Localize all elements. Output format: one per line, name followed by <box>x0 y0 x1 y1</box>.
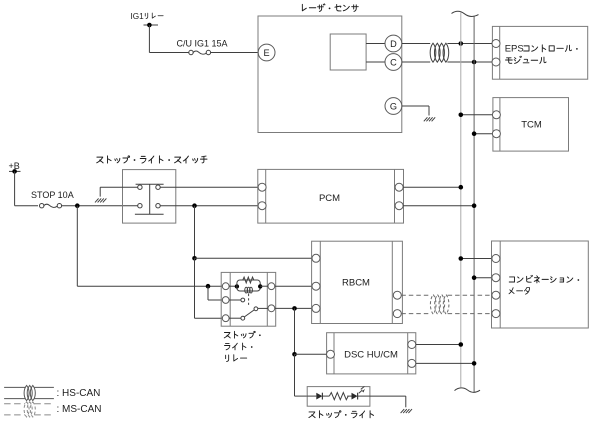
bus break symbol top <box>452 11 479 16</box>
legend MS-CAN text <box>57 404 102 415</box>
DSC HU/CM label <box>344 350 398 361</box>
ground (stop light) <box>401 409 412 413</box>
ground (stop light switch) <box>95 198 106 202</box>
wire pin G to ground <box>402 106 429 116</box>
PCM label <box>319 193 340 204</box>
module RBCM box <box>312 241 403 323</box>
pin 1 of PCM (left top) <box>258 183 266 191</box>
pin 2 of TCM <box>492 130 500 138</box>
svg-text:D: D <box>390 39 397 49</box>
LED emission arrow <box>359 386 365 393</box>
relay NO fixed contact <box>229 298 245 302</box>
pin 1 of EPS module <box>492 40 500 48</box>
wire MS-CAN L dashed RBCM to twist <box>401 313 430 315</box>
svg-text:: MS-CAN: : MS-CAN <box>57 404 102 415</box>
TCM label <box>521 120 542 131</box>
svg-text:PCM: PCM <box>319 193 340 204</box>
relay K1 stop light relay box <box>221 272 276 326</box>
wire internal unit to pin D <box>366 43 385 45</box>
node +B tap (dot with tick) <box>9 169 21 174</box>
wire DSC pin2 to CAN-H bus (dot) <box>416 342 463 347</box>
stop light label ストップ・ライト <box>309 411 374 418</box>
node +B battery feed label <box>9 161 20 171</box>
svg-text:C: C <box>390 57 397 67</box>
pin 1 of RBCM (left top) <box>312 254 320 262</box>
pin 2 of EPS module <box>492 58 500 66</box>
pin 3 of relay (common, left bottom) <box>222 315 229 322</box>
svg-text:: HS-CAN: : HS-CAN <box>57 388 101 399</box>
resistor inside relay coil <box>243 277 254 283</box>
pin 4 of relay (coil out, right top) <box>268 283 275 290</box>
stop light switch title ストップ・ライト・スイッチ <box>97 156 207 163</box>
wire relay pin1 to coil <box>229 284 239 288</box>
wire D1 to resistor <box>322 395 329 397</box>
pin 1 of DSC (left) <box>327 350 335 358</box>
ground (laser sensor G) <box>424 117 435 121</box>
wire fuse to stop light switch (junction A) <box>62 203 138 208</box>
pin 1 of TCM <box>492 111 500 119</box>
wire pin C to twisted pair <box>402 61 430 63</box>
wire IG1 to fuse <box>149 52 188 54</box>
wire relay arm to pin5 <box>258 307 268 309</box>
wire junction C to relay pin2 <box>208 286 222 300</box>
relay actuation dashed link <box>248 294 250 307</box>
bus CAN-H vertical line (left) <box>460 13 462 388</box>
relay label ストップ・ライト・リレー <box>224 331 260 361</box>
pin C of laser sensor <box>385 54 402 71</box>
pin D of laser sensor <box>385 35 402 52</box>
wire stop light to ground <box>358 396 406 407</box>
legend HS-CAN text <box>57 388 101 399</box>
svg-text:TCM: TCM <box>521 120 542 131</box>
wire twisted pair to CAN-H bus (dot on left bus) <box>447 41 492 46</box>
svg-text:STOP 10A: STOP 10A <box>31 190 74 200</box>
relay common contact <box>229 316 245 320</box>
lamp stop light box <box>307 387 370 407</box>
wire junction down to relay common <box>195 258 223 318</box>
legend HS-CAN pair <box>4 385 54 400</box>
fuse C/U IG1 15A <box>189 50 211 54</box>
module TCM box <box>493 98 569 152</box>
wire MS-CAN H dashed RBCM to twist <box>401 294 430 296</box>
pin 1 of relay (coil in, left top) <box>222 283 229 290</box>
wire +B down <box>14 171 16 205</box>
svg-text:E: E <box>264 48 270 58</box>
wire junction B down to RBCM branch <box>192 206 197 261</box>
relay movable arm <box>244 307 257 317</box>
bus CAN-L vertical line (right) <box>473 16 475 392</box>
module U1 laser sensor (レーザ・センサ) box <box>258 16 402 133</box>
resistor in stop light <box>329 393 348 400</box>
wire coil to relay pin4 <box>258 284 268 288</box>
EPS module label <box>505 43 578 63</box>
coil L inside relay <box>245 287 253 293</box>
fuse C/U IG1 15A label <box>177 38 228 48</box>
twisted pair MS-CAN <box>430 295 449 315</box>
bus break symbol bottom <box>455 388 481 392</box>
wire twisted pair to CAN-L bus (dot on right bus) <box>447 60 492 65</box>
diode D2 (LED) <box>352 393 358 400</box>
wire junction D down to DSC <box>292 308 297 356</box>
pin 2 of PCM (left bottom) <box>258 202 266 210</box>
wire junction down to stop light <box>295 354 308 396</box>
wire CAN-L bus to combination meter pin2 (dot) <box>472 275 492 280</box>
pin 4 of combination meter <box>492 310 500 318</box>
wire CAN-H bus to combination meter pin1 (dot) <box>459 256 492 261</box>
pin 5 of RBCM (right, MS-CAN L) <box>393 310 401 318</box>
wire switch upper-right to PCM pin1 <box>160 186 258 188</box>
switch upper bridge bar <box>136 183 164 185</box>
combination meter label コンビネーション・メータ <box>509 275 579 294</box>
wire resistor to diode D2 <box>347 395 351 397</box>
wire switch lower-right to PCM pin2 (junction B) <box>160 203 258 208</box>
relay coil R/L element outline <box>237 280 260 291</box>
wire MS-CAN L dashed to combination meter pin4 <box>448 313 492 315</box>
pin G of laser sensor <box>385 98 402 115</box>
pin 2 of relay (NO contact, left mid) <box>222 297 229 304</box>
module EPS control module box <box>492 26 587 79</box>
wire into diode D1 <box>307 395 316 397</box>
contact upper-left of switch <box>138 185 142 189</box>
pin 3 of combination meter <box>492 291 500 299</box>
wire MS-CAN H dashed to combination meter pin3 <box>448 294 492 296</box>
switch lower open bar <box>135 213 164 215</box>
svg-text:G: G <box>390 101 397 111</box>
node IG1 relay (IG1リレー) label <box>131 12 164 21</box>
svg-text:EPS: EPS <box>505 43 524 54</box>
svg-text:RBCM: RBCM <box>342 277 370 288</box>
svg-text:C/U IG1 15A: C/U IG1 15A <box>177 38 228 48</box>
wire relay pin4 to RBCM pin2 <box>275 285 312 287</box>
node IG1 relay tap (dot with tick) <box>144 23 159 28</box>
pin 4 of RBCM (right, MS-CAN H) <box>393 291 401 299</box>
pin 3 of PCM (right top) <box>395 183 403 191</box>
switch actuator vertical <box>149 184 151 214</box>
twisted pair HS-CAN (laser sensor) <box>430 43 449 62</box>
pin 1 of combination meter <box>492 255 500 263</box>
pin 3 of DSC (right bottom) <box>408 359 416 367</box>
pin 3 of RBCM (left bottom) <box>312 304 320 312</box>
wire +B to fuse STOP <box>15 205 38 207</box>
switch SW1 stop light switch box <box>123 170 176 224</box>
wire pin D to twisted pair <box>402 43 430 45</box>
pin 5 of relay (contact out, right bottom) <box>268 305 275 312</box>
diode D1 <box>316 393 322 400</box>
pin 2 of combination meter <box>492 274 500 282</box>
fuse STOP 10A <box>40 204 62 208</box>
contact upper-right of switch <box>156 185 160 189</box>
wire fuse to laser sensor pin E <box>211 52 259 54</box>
pin E of laser sensor <box>258 44 275 61</box>
module PCM box <box>258 169 404 223</box>
wire from IG1 relay down <box>148 25 150 53</box>
module DSC HU/CM box <box>327 333 416 374</box>
RBCM label <box>342 277 370 288</box>
wire PCM pin3 to CAN-H bus (dot) <box>403 185 463 190</box>
wire junction to DSC pin1 <box>295 353 327 355</box>
laser sensor internal unit box <box>330 34 366 70</box>
wire CAN-H bus to TCM pin1 (dot) <box>459 113 493 118</box>
svg-text:DSC HU/CM: DSC HU/CM <box>344 350 398 361</box>
wire CAN-L bus to TCM pin2 (dot) <box>472 131 493 136</box>
wire relay pin5 to RBCM pin3 (junction D) <box>275 306 312 311</box>
wire DSC pin3 to CAN-L bus (dot) <box>416 361 477 366</box>
wire switch upper-left to ground <box>100 187 138 196</box>
wire PCM pin4 to CAN-L bus (dot) <box>403 203 476 208</box>
pin 2 of RBCM (left mid) <box>312 282 320 290</box>
wire internal unit to pin C <box>366 61 385 63</box>
svg-text:IG1: IG1 <box>131 12 145 21</box>
pin 4 of PCM (right bottom) <box>395 202 403 210</box>
module combination meter box <box>492 241 589 328</box>
wire branch to RBCM pin1 <box>195 257 313 259</box>
wire junction A down <box>76 206 78 287</box>
contact lower-right of switch <box>156 204 160 208</box>
fuse STOP 10A label <box>31 190 74 200</box>
wire to stop light relay (junction C) <box>77 284 222 289</box>
laser sensor title レーザ・センサ <box>302 4 358 12</box>
contact lower-left of switch <box>138 204 142 208</box>
legend MS-CAN pair <box>4 402 54 417</box>
pin 2 of DSC (right top) <box>408 341 416 349</box>
